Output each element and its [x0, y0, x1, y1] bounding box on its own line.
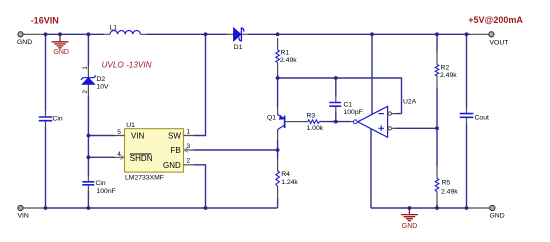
wire Q1 collector to FB node and R4 — [277, 140, 279, 208]
junction VOUT rail at Cout — [465, 32, 469, 36]
junction SW node at top rail — [204, 32, 208, 36]
wire U1 SW pin to top rail — [194, 34, 206, 135]
capacitor Cout — [460, 108, 489, 124]
wire U1 FB pin to node — [194, 149, 278, 151]
junction FB node at Q1/R4 — [276, 148, 280, 152]
svg-text:2.49k: 2.49k — [441, 188, 458, 195]
svg-text:1.00k: 1.00k — [307, 125, 324, 132]
svg-text:+5V@200mA: +5V@200mA — [468, 15, 523, 25]
svg-text:2: 2 — [187, 158, 191, 165]
svg-text:UVLO -13VIN: UVLO -13VIN — [102, 61, 152, 70]
svg-text:Q1: Q1 — [267, 115, 276, 122]
wire C1 verticals — [335, 78, 337, 122]
svg-text:R4: R4 — [281, 171, 290, 178]
svg-text:VIN: VIN — [18, 213, 29, 220]
wire opamp V+ to top rail — [371, 34, 373, 114]
terminal GND top-left — [17, 32, 46, 46]
svg-text:3: 3 — [187, 143, 191, 150]
svg-text:R1: R1 — [281, 50, 290, 57]
resistor R4 — [276, 159, 299, 199]
wire R1 to Q1 emitter — [277, 75, 279, 108]
U1 pin 4 input arrow — [120, 155, 124, 160]
terminal GND bottom-right — [467, 205, 505, 219]
wire vertical x88 through D2 — [87, 34, 89, 208]
wire top rail — [46, 33, 471, 35]
wire opamp V- to bottom rail — [370, 129, 372, 208]
svg-text:1: 1 — [187, 128, 191, 135]
junction -16VIN rail at GND symbol — [58, 32, 62, 36]
svg-text:-16VIN: -16VIN — [31, 16, 59, 26]
svg-text:GND: GND — [17, 39, 32, 46]
transistor Q1 (PNP) — [267, 107, 296, 140]
junction GND rail at GND symbol — [408, 206, 412, 210]
junction -16VIN rail at D2 branch — [87, 32, 91, 36]
wire left vertical x45 — [45, 34, 47, 208]
junction R1 bottom node — [276, 76, 280, 80]
wire bottom-right GND rail — [371, 207, 467, 209]
terminal VIN bottom-left — [18, 205, 46, 219]
wire R3 to C1 node to opamp output — [331, 121, 351, 123]
junction SHDN pin node — [87, 155, 91, 159]
svg-text:U1: U1 — [126, 122, 135, 129]
wire U1 VIN pin net — [88, 135, 114, 137]
svg-text:D1: D1 — [234, 44, 243, 51]
svg-text:SW: SW — [168, 132, 181, 141]
svg-text:Cout: Cout — [475, 114, 489, 121]
svg-text:GND: GND — [163, 161, 181, 170]
capacitor Cin 100nF — [82, 176, 115, 195]
svg-text:Cin: Cin — [53, 115, 63, 122]
svg-text:VIN: VIN — [131, 132, 145, 141]
junction VIN rail at Cin 100nF — [87, 206, 91, 210]
junction plus-input node at R2/R5 — [435, 126, 439, 130]
junction VIN rail at Cin — [44, 206, 48, 210]
svg-text:FB: FB — [171, 146, 181, 155]
svg-text:1: 1 — [82, 66, 89, 70]
wire plus input to R2/R5 node — [403, 127, 437, 129]
junction GND rail at R5 — [435, 206, 439, 210]
svg-text:D2: D2 — [97, 76, 106, 83]
svg-text:4: 4 — [117, 151, 121, 158]
resistor R3 — [296, 112, 336, 131]
svg-text:GND: GND — [53, 49, 69, 56]
svg-text:2.49k: 2.49k — [280, 57, 297, 64]
svg-text:SHDN: SHDN — [130, 154, 153, 163]
inductor L1 — [104, 24, 147, 34]
svg-text:2: 2 — [82, 90, 89, 94]
junction VOUT rail at op-amp V+ — [370, 32, 374, 36]
svg-text:1.24k: 1.24k — [281, 179, 298, 186]
junction VOUT rail at R2 — [435, 32, 439, 36]
svg-text:C1: C1 — [344, 102, 353, 109]
svg-text:2.49k: 2.49k — [440, 72, 457, 79]
terminal VOUT top-right — [467, 32, 509, 47]
wire second rail R1-bottom to minus input — [278, 78, 402, 114]
svg-text:LM2733XMF: LM2733XMF — [125, 174, 164, 181]
IC U1 LM2733XMF — [125, 122, 184, 181]
svg-text:R2: R2 — [441, 64, 450, 71]
resistor R1 — [276, 38, 297, 75]
resistor R5 — [435, 167, 458, 204]
ground symbol top — [52, 34, 69, 48]
wire R2 R5 vertical x437 — [436, 34, 438, 208]
wire bottom-left VIN rail — [46, 207, 278, 209]
U1 pin stubs — [115, 136, 194, 165]
ground symbol bottom — [401, 208, 418, 221]
U1 pin 3 input arrow — [184, 148, 188, 153]
wire U1 GND pin to bottom rail — [194, 165, 206, 208]
svg-text:100nF: 100nF — [97, 188, 116, 195]
diode D1 (Schottky) — [228, 28, 248, 51]
junction -16VIN rail at Cin — [44, 32, 48, 36]
svg-text:5: 5 — [117, 129, 121, 136]
svg-text:L1: L1 — [110, 24, 118, 31]
resistor R2 — [435, 53, 457, 89]
junction R3/C1/op-amp output node — [334, 120, 338, 124]
junction VOUT rail at R1 — [276, 32, 280, 36]
svg-text:GND: GND — [402, 223, 418, 230]
op-amp U2A — [351, 98, 417, 137]
svg-text:10V: 10V — [97, 84, 110, 91]
junction GND rail at Cout — [465, 206, 469, 210]
capacitor C1 — [329, 97, 362, 116]
svg-text:R5: R5 — [442, 179, 451, 186]
junction C1 top node — [334, 76, 338, 80]
svg-text:Cin: Cin — [96, 180, 106, 187]
junction VIN rail at U1 GND pin — [204, 206, 208, 210]
svg-text:VOUT: VOUT — [490, 40, 509, 47]
svg-text:R3: R3 — [307, 112, 316, 119]
svg-text:GND: GND — [490, 213, 505, 220]
svg-text:U2A: U2A — [403, 98, 417, 105]
junction VIN pin node — [87, 134, 91, 138]
zener diode D2 — [81, 66, 109, 96]
svg-text:100pF: 100pF — [344, 109, 363, 116]
wire U1 SHDN pin net — [88, 156, 114, 158]
capacitor Cin (left) — [39, 111, 63, 127]
wire Cout vertical x466 — [466, 34, 468, 208]
